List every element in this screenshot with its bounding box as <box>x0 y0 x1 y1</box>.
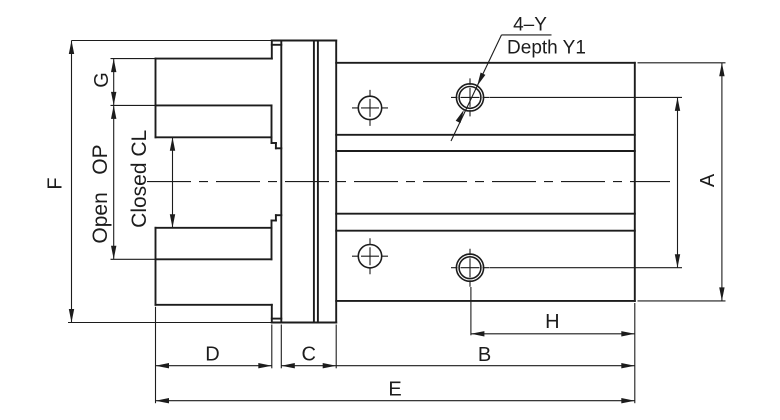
svg-text:4–Y: 4–Y <box>513 14 547 35</box>
svg-text:F: F <box>45 177 67 189</box>
svg-text:A: A <box>697 173 719 187</box>
svg-text:Closed CL: Closed CL <box>128 130 151 228</box>
svg-text:C: C <box>301 344 315 366</box>
svg-text:Open OP: Open OP <box>89 144 112 243</box>
svg-text:G: G <box>91 72 113 88</box>
svg-text:H: H <box>545 311 559 333</box>
svg-text:B: B <box>478 344 491 366</box>
svg-text:Depth Y1: Depth Y1 <box>507 37 586 58</box>
svg-text:E: E <box>388 379 401 401</box>
svg-text:D: D <box>205 344 219 366</box>
